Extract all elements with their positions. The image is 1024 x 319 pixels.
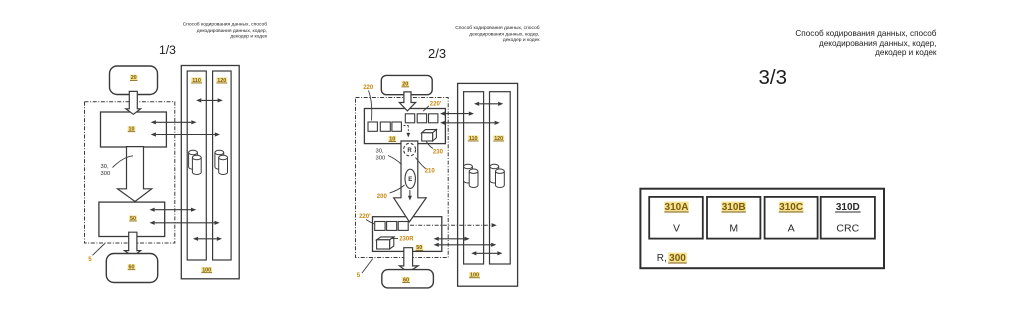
fig2 ref 100 [469, 272, 480, 278]
fig1 block 50 [99, 202, 165, 236]
fig2 wire 50-110 [434, 237, 470, 241]
fig2 block 10 [364, 109, 445, 144]
svg-text:A: A [788, 222, 795, 234]
svg-text:R,: R, [657, 253, 667, 264]
fig3 field box 310C A [765, 197, 818, 239]
fig1 column 110 [187, 71, 206, 260]
fig2 dash-dot boundary box 5 [356, 98, 449, 258]
svg-text:310C: 310C [779, 202, 803, 213]
svg-text:Способ кодирования данных, спо: Способ кодирования данных, способ [795, 29, 936, 38]
fig2 small arrow below E [408, 190, 412, 201]
svg-text:210: 210 [425, 168, 436, 174]
fig2 leader 230 [426, 142, 433, 149]
fig2 arrow 20 to 10 [399, 92, 415, 111]
fig1 ref 50 [129, 215, 137, 221]
fig2 ref 50 [416, 245, 424, 251]
svg-text:310A: 310A [665, 202, 689, 213]
svg-text:30,: 30, [101, 164, 109, 170]
svg-text:декодер и кодек: декодер и кодек [503, 38, 541, 43]
fig2 wire 110-120 top [474, 102, 503, 106]
fig1 ref 20 [130, 75, 138, 81]
fig2 leader 230R [391, 238, 398, 240]
svg-text:E: E [408, 177, 412, 183]
fig1 wire 10-120 [151, 132, 220, 136]
fig2 leader 210 [416, 158, 426, 169]
svg-text:V: V [673, 222, 680, 234]
svg-text:2/3: 2/3 [428, 46, 446, 61]
svg-text:310D: 310D [836, 202, 860, 213]
fig2 arrow 10 to 50 (30,300) [394, 141, 427, 222]
fig2 storage box 100 [458, 83, 518, 286]
fig2 leader 220p top [423, 106, 429, 111]
svg-text:Способ кодирования данных, спо: Способ кодирования данных, способ [455, 25, 540, 31]
fig3 ref 310A [664, 202, 688, 213]
fig1 ref 120 [216, 77, 227, 83]
fig2 wire 110-120 bottom [471, 251, 502, 255]
svg-text:декодер и кодек: декодер и кодек [875, 48, 937, 57]
fig3 ref 310B [722, 202, 746, 213]
svg-text:200: 200 [377, 194, 388, 200]
fig1 wire 50-120 [150, 221, 220, 225]
fig2 leader 30,300 [388, 156, 402, 165]
fig2 data units 220 in block 10 [368, 122, 401, 131]
svg-text:30,: 30, [376, 149, 384, 155]
svg-text:3/3: 3/3 [759, 66, 788, 89]
svg-text:CRC: CRC [836, 222, 859, 234]
fig2 dash-dot wire 50 to 120 [410, 223, 497, 227]
fig1 storage box 100 [181, 66, 239, 279]
fig1 sink block 60 [106, 254, 157, 283]
fig3 field box 310B M [707, 197, 760, 239]
fig1 ref 100 [201, 267, 212, 273]
fig1 arrow 10 to 50 (30,300) [118, 147, 152, 202]
fig2 leader 200 [390, 185, 405, 193]
fig2 ref 60 [402, 277, 410, 283]
fig1 source block 20 [110, 66, 158, 95]
fig2 leader 5 [362, 259, 373, 274]
fig1 storage cylinders in 120 [215, 150, 228, 174]
fig2 ref 120 [493, 135, 504, 141]
svg-text:300: 300 [101, 171, 111, 177]
fig2 dashed wire to arrow [404, 126, 411, 138]
svg-text:5: 5 [88, 256, 92, 263]
svg-text:R: R [407, 148, 412, 154]
fig1 ref 60 [128, 264, 136, 270]
fig2 ref 10 [389, 136, 397, 142]
fig2 data units 220p in block 50 [375, 222, 409, 231]
svg-text:310B: 310B [722, 202, 746, 213]
fig2 sink block 60 [382, 270, 434, 288]
fig2 arrow 50 to 60 [399, 248, 418, 273]
svg-text:5: 5 [357, 272, 361, 279]
fig1 ref 10 [128, 126, 136, 132]
svg-text:220′: 220′ [359, 214, 371, 220]
fig2 wire 50-120 [434, 243, 497, 247]
svg-text:230R: 230R [399, 237, 414, 243]
fig3 record frame R,300 [640, 189, 884, 269]
fig2 rate matcher ellipse R 210 [404, 143, 416, 156]
svg-text:декодирования данных, кодер,: декодирования данных, кодер, [197, 29, 267, 34]
fig3 field box 310A V [649, 197, 703, 239]
fig1 wire 50-110 [150, 208, 197, 212]
fig2 memory cube 230 [422, 130, 437, 141]
fig2 ref 110 [468, 135, 479, 141]
svg-text:Способ кодирования данных, спо: Способ кодирования данных, способ [183, 22, 268, 28]
svg-text:230: 230 [433, 150, 444, 156]
svg-text:декодер и кодек: декодер и кодек [230, 34, 268, 39]
fig3 field box 310D CRC [821, 197, 875, 239]
svg-text:220′: 220′ [430, 101, 442, 107]
svg-text:декодирования данных, кодер,: декодирования данных, кодер, [819, 39, 937, 48]
fig2 column 120 [490, 92, 511, 264]
fig2 source block 20 [381, 75, 432, 94]
svg-text:300: 300 [376, 155, 386, 161]
fig2 storage cylinders in 110 [464, 164, 478, 187]
fig3 ref 310C [779, 202, 803, 213]
fig2 storage cylinders in 120 [490, 164, 504, 187]
svg-text:M: M [729, 222, 738, 234]
fig1 storage cylinders in 110 [189, 150, 202, 174]
fig1 ref 110 [191, 77, 202, 83]
fig1 wire 10-110 [151, 120, 197, 124]
fig1 wire 110-120 top [196, 98, 223, 102]
fig3 ref 300 [668, 253, 687, 264]
fig1 leader 5 [93, 244, 105, 256]
fig1 wire 110-120 bottom [193, 237, 222, 241]
fig1 arrow 20 to 10 [126, 91, 141, 114]
fig1 column 120 [213, 71, 232, 260]
fig2 data units 220p in block 10 [405, 114, 438, 123]
fig2 column 110 [464, 92, 484, 264]
svg-text:1/3: 1/3 [159, 43, 176, 57]
fig1 leader 30,300 [113, 156, 134, 168]
svg-text:300: 300 [669, 253, 686, 264]
fig2 leader 220 [369, 91, 372, 121]
fig1 block 10 [101, 112, 167, 147]
fig2 memory cube 230R [377, 237, 394, 249]
fig2 leader 220p bottom [366, 220, 374, 224]
svg-text:декодирования данных, кодер,: декодирования данных, кодер, [469, 32, 539, 37]
fig2 wire 10-110 [440, 112, 474, 116]
fig2 ref 20 [402, 81, 410, 87]
fig3 ref 310D [835, 202, 861, 213]
svg-text:220: 220 [363, 85, 374, 91]
fig2 encoder ellipse E 200 [405, 169, 415, 188]
fig1 arrow 50 to 60 [125, 232, 141, 256]
fig1 dash-dot boundary box 5 [85, 102, 175, 243]
fig2 wire 10-120 [440, 121, 500, 125]
fig2 block 50 [373, 217, 442, 252]
